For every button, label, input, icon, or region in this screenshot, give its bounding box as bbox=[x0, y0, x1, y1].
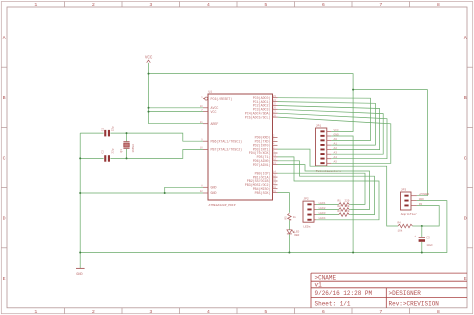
svg-text:B: B bbox=[464, 95, 467, 101]
svg-text:VCC: VCC bbox=[334, 129, 339, 132]
wire C3 top bbox=[421, 226, 423, 237]
IC left pin numbers bbox=[200, 96, 203, 193]
capacitor C1 bbox=[101, 126, 114, 137]
svg-text:PC5(ADC5/SCL): PC5(ADC5/SCL) bbox=[245, 115, 271, 119]
IC right pin numbers bbox=[273, 95, 276, 193]
svg-text:A: A bbox=[464, 35, 467, 41]
wire R zigzag tails bbox=[349, 203, 350, 205]
wire VCC top rail bbox=[149, 74, 354, 132]
IC left pin stubs bbox=[203, 99, 208, 193]
svg-text:LED3: LED3 bbox=[319, 212, 326, 215]
junction C3 rail bbox=[421, 252, 423, 254]
svg-text:PB7(XTAL2/TOSC2): PB7(XTAL2/TOSC2) bbox=[211, 148, 243, 152]
svg-text:C: C bbox=[464, 155, 467, 161]
wire PD5 to LED4 bbox=[278, 157, 380, 220]
JP2 pin stubs bbox=[314, 204, 316, 219]
svg-text:LEDs: LEDs bbox=[303, 225, 310, 228]
svg-text:LED2: LED2 bbox=[319, 207, 326, 210]
junction VCC amp branch bbox=[352, 89, 354, 91]
svg-text:8: 8 bbox=[437, 309, 440, 315]
wire bottom GND rail bbox=[80, 201, 447, 253]
LED D1 bbox=[287, 230, 300, 237]
crystal Q1 bbox=[120, 142, 135, 153]
junction pot gnd rail bbox=[352, 252, 354, 254]
svg-text:C: C bbox=[3, 155, 6, 161]
svg-text:A1: A1 bbox=[334, 143, 338, 146]
resistor R2 bbox=[338, 205, 350, 212]
svg-text:A5: A5 bbox=[334, 161, 338, 164]
svg-text:GND: GND bbox=[76, 273, 82, 277]
svg-text:7: 7 bbox=[379, 309, 382, 315]
wire PC5 to pot A5 bbox=[278, 117, 391, 163]
svg-text:R5: R5 bbox=[284, 216, 287, 220]
svg-text:3: 3 bbox=[149, 2, 152, 8]
svg-text:Rev:>CREVISION: Rev:>CREVISION bbox=[389, 301, 440, 308]
wire AREF bbox=[149, 123, 204, 125]
frame column labels bottom bbox=[34, 309, 440, 315]
wire R4 tail bbox=[412, 225, 414, 227]
frame row ticks right bbox=[467, 67, 473, 248]
connector JP3 amplifier bbox=[401, 189, 418, 217]
wire R1 to JP2 bbox=[316, 203, 339, 205]
resistor R3 bbox=[338, 210, 350, 217]
svg-text:VCC: VCC bbox=[145, 57, 153, 61]
svg-text:9/26/16 12:28 PM: 9/26/16 12:28 PM bbox=[315, 290, 373, 297]
svg-text:JP1: JP1 bbox=[316, 125, 322, 128]
svg-text:LED1: LED1 bbox=[319, 202, 326, 205]
capacitor C2 bbox=[101, 148, 114, 162]
svg-text:ATMEGA328P_PDIP: ATMEGA328P_PDIP bbox=[209, 204, 236, 207]
svg-text:v1: v1 bbox=[315, 282, 323, 289]
wire VCC vertical main bbox=[148, 63, 150, 124]
svg-text:220: 220 bbox=[345, 210, 350, 213]
JP3 pin names bbox=[419, 193, 430, 206]
svg-text:16MHz: 16MHz bbox=[132, 144, 135, 153]
svg-text:C3: C3 bbox=[426, 236, 430, 239]
svg-text:GND: GND bbox=[334, 133, 339, 136]
svg-text:4: 4 bbox=[207, 2, 210, 8]
junction left bus xtal2 bbox=[79, 157, 81, 159]
svg-text:5: 5 bbox=[264, 2, 267, 8]
svg-text:1: 1 bbox=[34, 309, 37, 315]
wire PC2 to pot A2 bbox=[278, 106, 380, 150]
wire pot GND down bbox=[331, 136, 353, 253]
svg-text:1: 1 bbox=[34, 2, 37, 8]
wire VCC amp branch bbox=[353, 90, 427, 196]
svg-text:22p: 22p bbox=[111, 126, 114, 131]
svg-text:A3: A3 bbox=[334, 152, 338, 155]
svg-text:220: 220 bbox=[345, 200, 350, 203]
capacitor C3 bbox=[414, 235, 433, 247]
svg-text:A2: A2 bbox=[334, 147, 338, 150]
svg-text:R3: R3 bbox=[338, 210, 342, 213]
svg-text:>DESIGNER: >DESIGNER bbox=[389, 290, 422, 297]
svg-text:R4: R4 bbox=[398, 221, 402, 224]
junction AVCC bbox=[148, 107, 150, 109]
frame column ticks bottom bbox=[65, 308, 410, 314]
svg-text:GND: GND bbox=[211, 186, 217, 190]
wire PB5 indicator branch bbox=[278, 193, 290, 213]
svg-text:>CNAME: >CNAME bbox=[315, 275, 337, 282]
svg-text:Sheet: 1/1: Sheet: 1/1 bbox=[315, 301, 351, 308]
wire PD7 to LED2 bbox=[278, 165, 370, 210]
wire R4 right bbox=[414, 225, 422, 227]
junction C2 right bbox=[126, 157, 128, 159]
resistor R4 bbox=[398, 221, 413, 232]
svg-text:R1: R1 bbox=[338, 200, 342, 203]
svg-text:6: 6 bbox=[322, 2, 325, 8]
resistor R1 bbox=[338, 200, 350, 207]
junction R4 C3 bbox=[421, 225, 423, 227]
svg-text:AREF: AREF bbox=[211, 122, 219, 126]
svg-text:U1: U1 bbox=[209, 91, 213, 94]
svg-text:4: 4 bbox=[207, 309, 210, 315]
junction GND pins bbox=[164, 192, 166, 194]
svg-text:B: B bbox=[3, 95, 6, 101]
IC right pin stubs bbox=[273, 98, 278, 193]
wire XTAL2 net bbox=[80, 157, 103, 159]
title block frame bbox=[311, 273, 467, 308]
svg-text:E: E bbox=[3, 276, 6, 282]
svg-text:3: 3 bbox=[149, 309, 152, 315]
svg-text:+POWER: +POWER bbox=[419, 193, 430, 196]
svg-text:JP2: JP2 bbox=[303, 198, 309, 201]
junction left bus gnd wire bbox=[79, 192, 81, 194]
svg-text:C1: C1 bbox=[101, 128, 104, 132]
wire left GND bus bbox=[79, 133, 81, 268]
svg-text:5: 5 bbox=[264, 309, 267, 315]
VCC supply symbol bbox=[145, 57, 153, 63]
JP3 pin stubs bbox=[411, 196, 417, 206]
wire crystal vertical bbox=[126, 133, 128, 141]
svg-text:PB5(SCK): PB5(SCK) bbox=[255, 191, 271, 195]
wire IC GND pins bbox=[80, 187, 203, 193]
wire amp IN net bbox=[417, 206, 439, 227]
frame column labels top bbox=[34, 2, 440, 8]
svg-text:GND: GND bbox=[419, 198, 424, 201]
IC U1 body bbox=[208, 94, 273, 200]
wire C3 bottom bbox=[421, 242, 423, 253]
svg-text:PC6(/RESET): PC6(/RESET) bbox=[211, 97, 233, 101]
frame row labels right bbox=[464, 35, 467, 282]
svg-text:10k: 10k bbox=[398, 229, 403, 233]
svg-text:1k: 1k bbox=[293, 215, 297, 219]
junction indicator rail bbox=[288, 252, 290, 254]
junction rail left bbox=[79, 252, 81, 254]
frame row ticks left bbox=[1, 67, 7, 248]
svg-text:GND: GND bbox=[211, 191, 217, 195]
wire PC4 to pot A4 bbox=[278, 113, 388, 159]
wire R2 to JP2 bbox=[316, 209, 339, 211]
svg-text:220: 220 bbox=[345, 205, 350, 208]
svg-text:6: 6 bbox=[322, 309, 325, 315]
frame column ticks top bbox=[65, 2, 410, 8]
svg-text:D: D bbox=[3, 216, 6, 222]
connector JP2 LEDs bbox=[303, 198, 314, 229]
IC reset pin bubble bbox=[205, 97, 208, 100]
wire PC3 to pot A3 bbox=[278, 109, 384, 154]
JP2 pin names bbox=[319, 202, 326, 220]
ground symbol GND bbox=[76, 268, 85, 277]
svg-text:VCC: VCC bbox=[211, 110, 217, 114]
wire PB0 to LED1 bbox=[278, 173, 366, 204]
svg-text:R2: R2 bbox=[338, 205, 342, 208]
frame row labels left bbox=[3, 35, 6, 282]
svg-text:A: A bbox=[3, 35, 6, 41]
svg-text:C2: C2 bbox=[101, 150, 104, 154]
svg-text:2: 2 bbox=[92, 2, 95, 8]
wire PC1 to pot A1 bbox=[278, 102, 376, 146]
wire R3 to JP2 bbox=[316, 214, 339, 216]
svg-text:22p: 22p bbox=[111, 148, 114, 153]
wire VCC pin bbox=[149, 111, 204, 113]
svg-text:A4: A4 bbox=[334, 156, 338, 159]
wire AVCC bbox=[149, 107, 204, 109]
svg-text:Q1: Q1 bbox=[120, 149, 123, 153]
svg-text:RED: RED bbox=[294, 234, 299, 237]
svg-text:7: 7 bbox=[379, 2, 382, 8]
junction VCC pin bbox=[148, 111, 150, 113]
svg-text:PB6(XTAL1/TOSC1): PB6(XTAL1/TOSC1) bbox=[211, 139, 243, 143]
svg-text:PD7(AIN1): PD7(AIN1) bbox=[253, 163, 271, 167]
wire PC0 to pot A0 bbox=[278, 98, 371, 141]
svg-text:8: 8 bbox=[437, 2, 440, 8]
wire XTAL1 net bbox=[80, 132, 103, 134]
IC right pin labels bbox=[245, 96, 271, 195]
JP1 pin names bbox=[334, 129, 339, 164]
JP1 pin stubs bbox=[327, 132, 332, 164]
IC left pin labels bbox=[211, 97, 243, 195]
junction C1 right bbox=[126, 132, 128, 134]
svg-text:10uF: 10uF bbox=[426, 244, 433, 247]
svg-text:A0: A0 bbox=[334, 138, 338, 141]
svg-text:Amplifier: Amplifier bbox=[401, 212, 417, 216]
junction VCC rail bbox=[148, 73, 150, 75]
wire PD6 to LED3 bbox=[278, 161, 375, 215]
svg-text:D: D bbox=[464, 216, 467, 222]
svg-text:JP3: JP3 bbox=[401, 189, 407, 192]
wire PD3 to R4 bbox=[278, 149, 399, 226]
resistor R5 bbox=[284, 213, 296, 220]
connector JP1 potentiometers bbox=[316, 125, 342, 174]
svg-text:LED4: LED4 bbox=[319, 217, 326, 220]
svg-text:2: 2 bbox=[92, 309, 95, 315]
